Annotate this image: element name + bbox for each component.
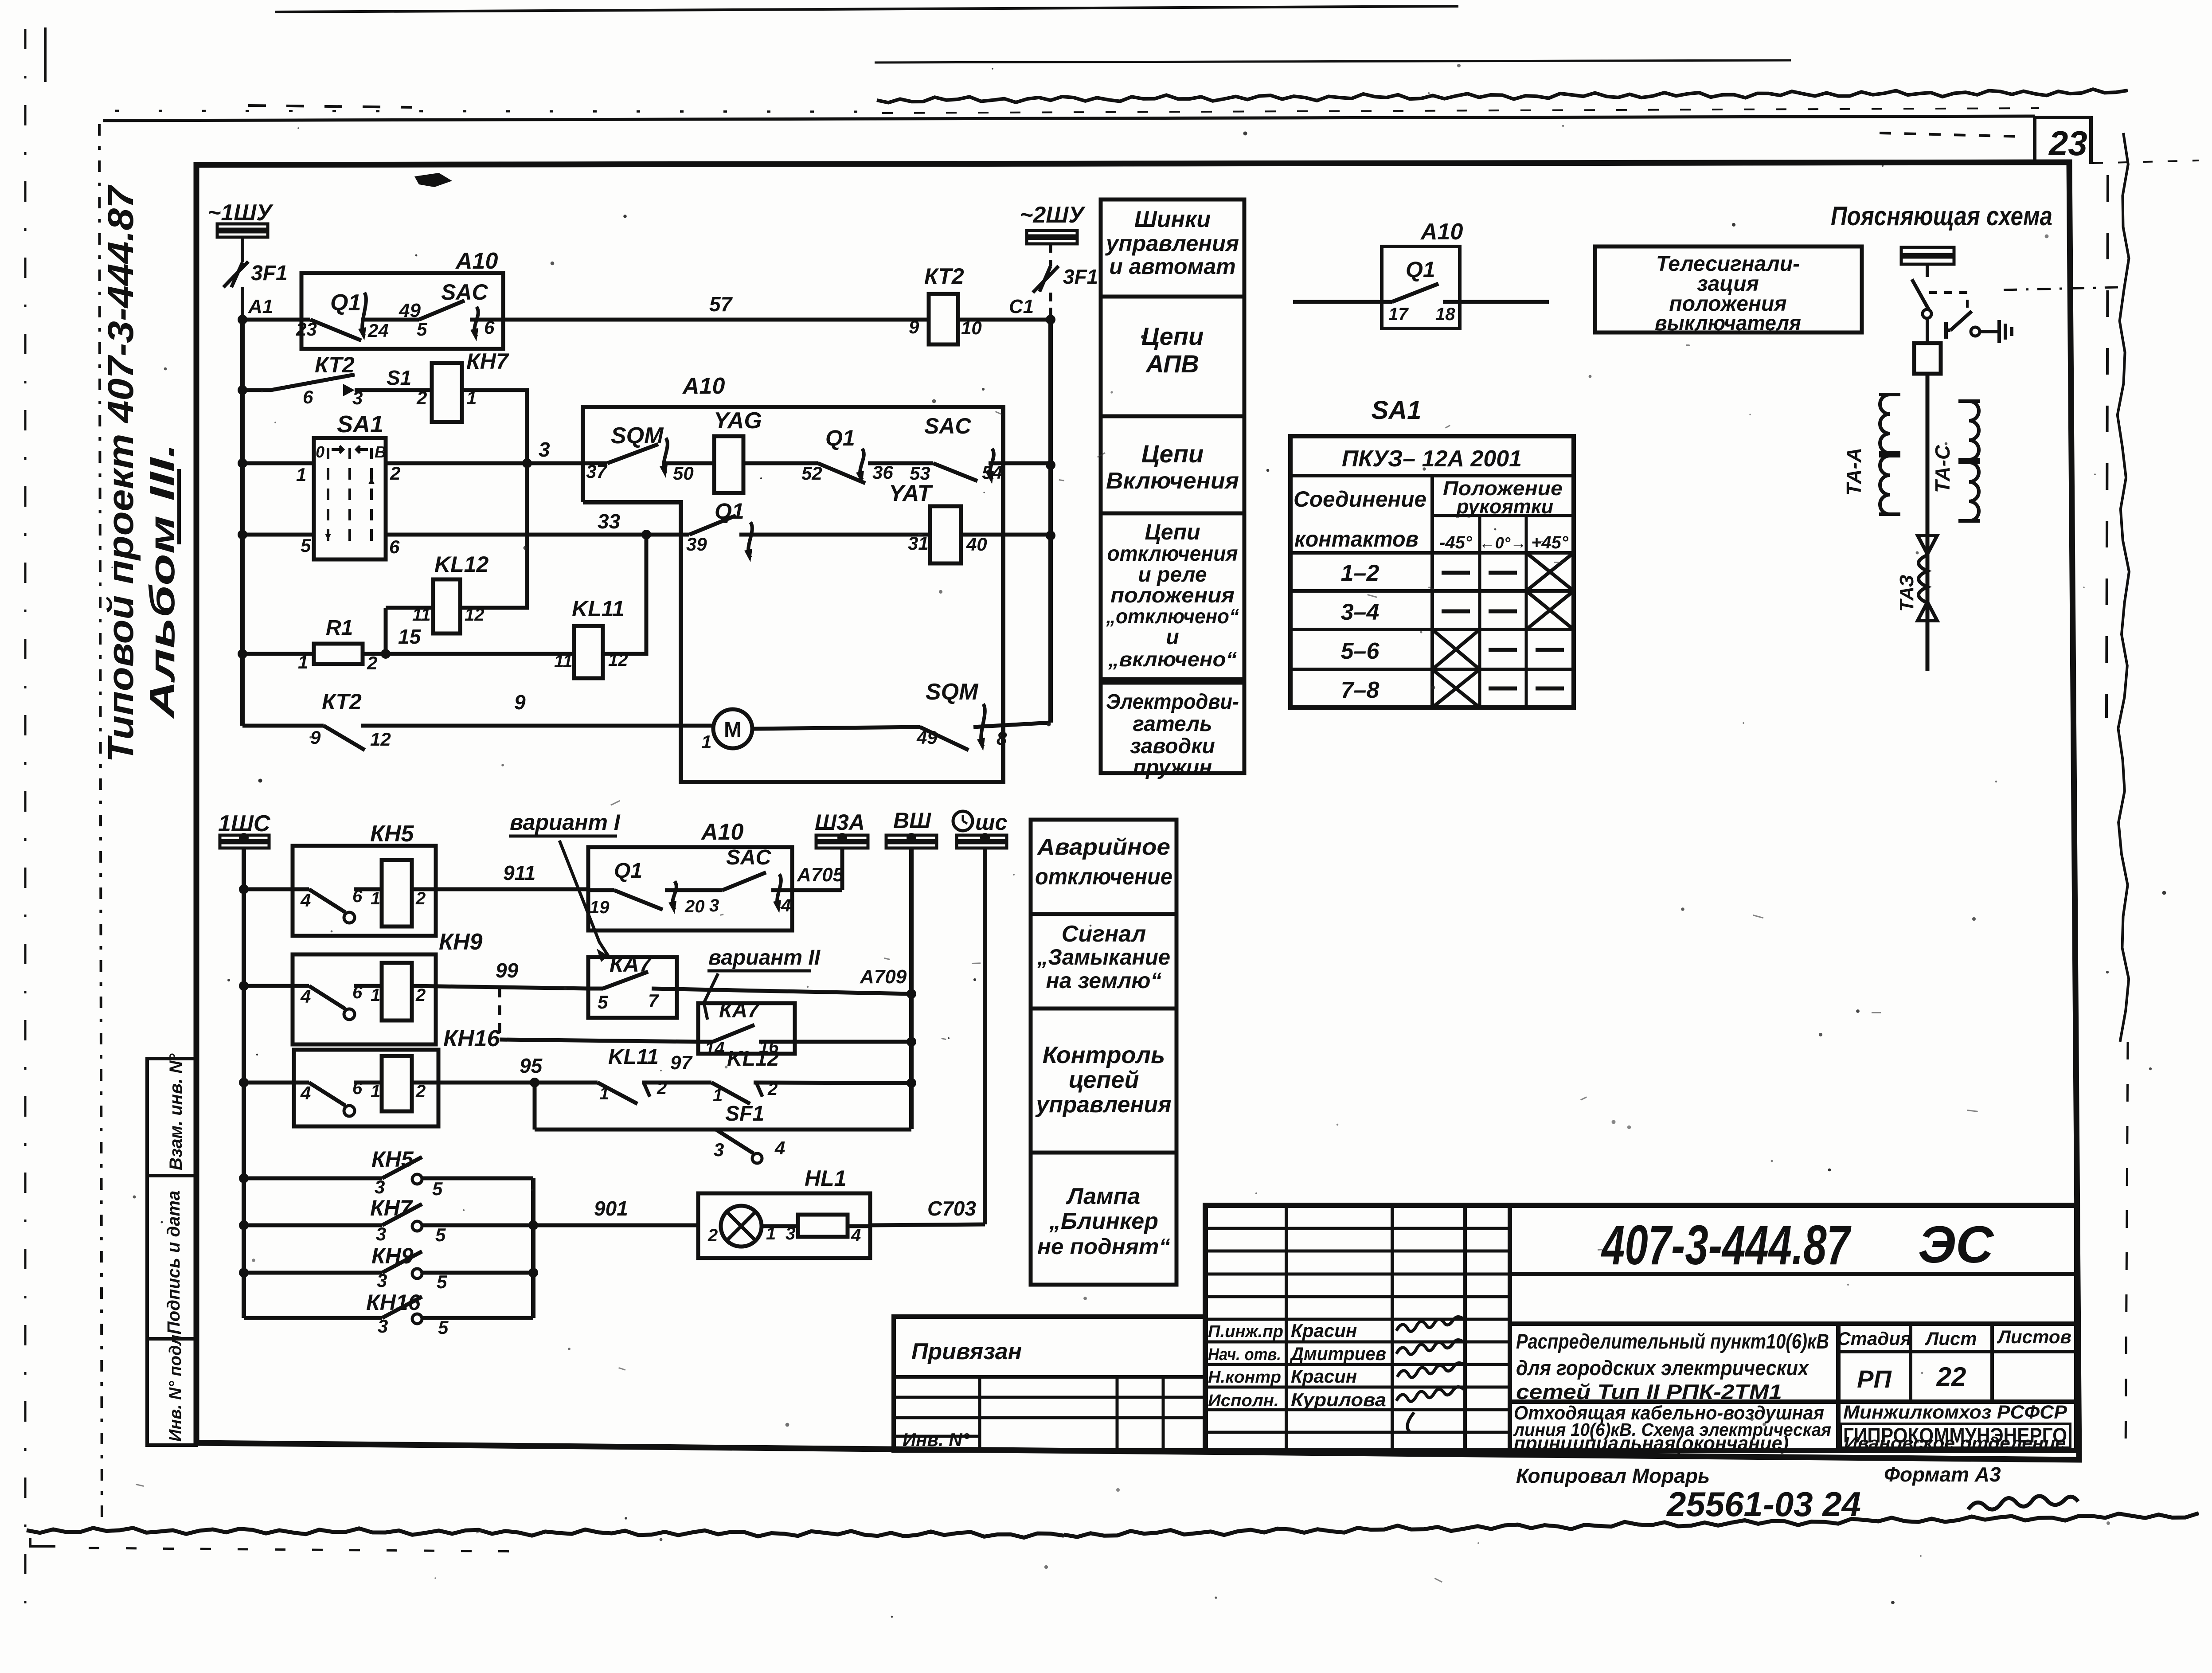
svg-text:Н.контр: Н.контр [1208, 1368, 1281, 1387]
svg-text:„Блинкер: „Блинкер [1049, 1208, 1158, 1234]
busbar of explanatory diagram [1901, 247, 1954, 254]
svg-text:пружин: пружин [1133, 756, 1212, 779]
svg-text:„отключено“: „отключено“ [1106, 605, 1239, 628]
left fold dashed line [99, 124, 102, 1525]
svg-text:ЭС: ЭС [1918, 1216, 1994, 1274]
svg-text:3: 3 [378, 1316, 388, 1337]
svg-text:HL1: HL1 [805, 1166, 846, 1191]
svg-text:Дмитриев: Дмитриев [1290, 1343, 1386, 1364]
svg-text:Аварийное: Аварийное [1036, 834, 1170, 860]
svg-text:11: 11 [554, 652, 573, 671]
svg-text:Лист: Лист [1924, 1328, 1977, 1349]
doc number cell [1510, 1272, 2077, 1276]
svg-text:1: 1 [296, 464, 306, 485]
svg-text:1: 1 [371, 889, 380, 908]
svg-text:3: 3 [376, 1223, 386, 1244]
svg-text:12: 12 [465, 605, 485, 625]
svg-text:4: 4 [781, 896, 791, 915]
svg-text:2: 2 [415, 1082, 426, 1101]
svg-text:Альбом III.: Альбом III. [142, 443, 182, 719]
svg-text:S1: S1 [387, 366, 411, 389]
svg-text:Ш3А: Ш3А [815, 810, 865, 835]
svg-text:5: 5 [432, 1178, 443, 1199]
wire from 2ShU down + 3F1 right [1049, 244, 1052, 266]
svg-text:19: 19 [590, 898, 610, 917]
svg-text:вариант II: вариант II [708, 946, 821, 969]
svg-text:12: 12 [370, 729, 391, 750]
svg-text:Взам. инв. N°: Взам. инв. N° [166, 1053, 186, 1170]
rail 4 wire [242, 533, 314, 537]
interlock dashed link [1929, 293, 1967, 316]
riser KH16 rail to SF1 rail [533, 1083, 537, 1130]
svg-text:←0°→: ←0°→ [1479, 534, 1526, 552]
junction rail3 / KH7-KL12 riser [522, 458, 532, 468]
svg-text:R1: R1 [326, 616, 353, 640]
svg-text:5: 5 [435, 1224, 446, 1245]
telesignalization box [1595, 246, 1862, 332]
Q1 17-18 blade [1392, 284, 1438, 302]
VSh vertical [909, 848, 914, 1129]
svg-text:7–8: 7–8 [1341, 677, 1380, 703]
svg-text:Листов: Листов [1997, 1326, 2071, 1347]
svg-text:+45°: +45° [1531, 533, 1569, 552]
riser to Sh3A bus [840, 848, 844, 890]
motor M [713, 709, 752, 748]
svg-text:25561-03 24: 25561-03 24 [1666, 1485, 1861, 1524]
svg-text:КН5: КН5 [371, 1147, 414, 1172]
svg-text:КТ2: КТ2 [322, 689, 362, 714]
svg-text:-45°: -45° [1439, 533, 1473, 552]
KH7 3-5 contact rail [244, 1223, 382, 1227]
svg-text:95: 95 [520, 1054, 543, 1077]
rail 2 wire [242, 388, 271, 392]
svg-text:4: 4 [300, 890, 311, 911]
svg-text:Сигнал: Сигнал [1062, 921, 1146, 947]
svg-text:1: 1 [371, 1082, 380, 1101]
svg-text:24: 24 [367, 320, 389, 341]
svg-text:А10: А10 [682, 373, 725, 399]
svg-text:4: 4 [851, 1226, 861, 1245]
svg-text:Стадия: Стадия [1837, 1328, 1911, 1349]
legend box: tsepi APV [1101, 297, 1244, 416]
svg-text:20: 20 [684, 897, 705, 916]
svg-text:на землю“: на землю“ [1046, 968, 1162, 993]
svg-text:49: 49 [399, 300, 421, 321]
svg-text:~1ШУ: ~1ШУ [207, 200, 274, 226]
right sheet edge dashed + wavy [2106, 175, 2108, 718]
svg-text:для городских электрических: для городских электрических [1516, 1356, 1809, 1380]
svg-text:1: 1 [713, 1086, 723, 1105]
svg-text:57: 57 [709, 293, 733, 316]
svg-text:Исполн.: Исполн. [1208, 1392, 1279, 1410]
svg-text:отключения: отключения [1107, 542, 1238, 566]
legend box: kontrol tsepey upravleniya [1031, 1008, 1176, 1153]
svg-text:1: 1 [599, 1084, 609, 1103]
svg-text:2: 2 [390, 463, 400, 484]
svg-text:и автомат: и автомат [1109, 254, 1235, 279]
svg-text:Q1: Q1 [1406, 257, 1435, 282]
riser to KL12 [384, 608, 388, 654]
svg-text:Цепи: Цепи [1141, 322, 1204, 350]
svg-text:1–2: 1–2 [1341, 560, 1380, 586]
svg-text:выключателя: выключателя [1655, 312, 1801, 335]
svg-text:50: 50 [673, 463, 694, 484]
svg-text:Q1: Q1 [330, 290, 361, 316]
svg-text:и реле: и реле [1138, 563, 1207, 586]
rail 3 wire left [242, 461, 314, 465]
svg-text:YAG: YAG [714, 408, 762, 434]
svg-text:ТА-А: ТА-А [1842, 448, 1865, 496]
svg-text:КН7: КН7 [370, 1196, 413, 1220]
svg-text:принципиальная(окончание): принципиальная(окончание) [1514, 1433, 1789, 1454]
svg-text:4: 4 [300, 1083, 311, 1103]
svg-text:Включения: Включения [1106, 468, 1239, 494]
svg-text:49: 49 [916, 727, 938, 748]
svg-text:~2ШУ: ~2ШУ [1020, 202, 1086, 228]
svg-text:А709: А709 [860, 966, 907, 988]
svg-text:52: 52 [801, 463, 822, 484]
svg-text:заводки: заводки [1130, 735, 1215, 758]
rail 3 wire right [386, 461, 583, 465]
title block rows left part [1205, 1227, 1510, 1230]
svg-text:97: 97 [670, 1052, 693, 1074]
svg-text:В: В [375, 443, 386, 461]
svg-text:901: 901 [594, 1197, 628, 1220]
bottom sheet wavy edge [27, 1528, 1064, 1538]
svg-text:управления: управления [1105, 231, 1239, 256]
svg-text:А10: А10 [455, 248, 498, 274]
svg-text:6: 6 [389, 536, 400, 557]
svg-text:Q1: Q1 [614, 859, 642, 883]
left main vertical rail [240, 320, 245, 726]
top small ink blob [414, 173, 452, 187]
CT TA-A coils [1880, 395, 1890, 453]
svg-text:Красин: Красин [1291, 1366, 1357, 1387]
svg-text:Красин: Красин [1291, 1320, 1357, 1341]
legend box: signal zamykanie na zemlyu [1031, 914, 1176, 1008]
right collector bus of pushbuttons [531, 1178, 535, 1318]
svg-text:Минжилкомхоз РСФСР: Минжилкомхоз РСФСР [1843, 1402, 2067, 1423]
svg-text:1: 1 [701, 731, 711, 752]
sheet top second line [875, 60, 1791, 63]
sheet top edge line [275, 6, 1458, 12]
disconnector [1912, 279, 1929, 310]
svg-text:Шинки: Шинки [1134, 207, 1211, 232]
legend box: avariynoe otklyuchenie [1031, 820, 1176, 914]
svg-text:5: 5 [437, 1271, 447, 1292]
svg-text:С1: С1 [1009, 296, 1034, 317]
top dashed scan residue [882, 108, 2039, 113]
svg-text:А10: А10 [700, 819, 743, 845]
svg-text:3: 3 [375, 1177, 385, 1197]
svg-text:0: 0 [316, 443, 324, 461]
svg-text:КН16: КН16 [443, 1026, 500, 1051]
bottom-right signature scribble [1968, 1496, 2078, 1509]
svg-text:1: 1 [371, 985, 380, 1005]
svg-text:управления: управления [1035, 1092, 1172, 1118]
svg-text:M: M [724, 718, 742, 742]
svg-text:9: 9 [514, 691, 526, 714]
scan speckles [1428, 92, 1430, 94]
svg-text:цепей: цепей [1069, 1067, 1139, 1093]
svg-text:РП: РП [1857, 1365, 1892, 1393]
svg-text:2: 2 [415, 985, 426, 1005]
svg-text:9: 9 [909, 317, 919, 337]
svg-text:33: 33 [598, 510, 621, 533]
svg-text:Q1: Q1 [825, 426, 855, 450]
left stamp box inv n podl [147, 1339, 196, 1445]
svg-text:1ШС: 1ШС [218, 811, 271, 836]
legend box: elektrodvigatel zavodki pruzhin [1101, 683, 1244, 773]
svg-text:ТА-С: ТА-С [1931, 445, 1954, 493]
bottom-left small L mark [30, 1538, 55, 1546]
frame thin top rule [103, 116, 2035, 121]
svg-text:КТ2: КТ2 [315, 352, 355, 377]
zero-seq CT TA3 [1918, 536, 1937, 554]
svg-text:Цепи: Цепи [1145, 520, 1200, 544]
rail 6 wire [242, 724, 324, 728]
svg-text:KL12: KL12 [727, 1047, 779, 1071]
frame main border [196, 162, 2079, 1460]
svg-text:4: 4 [774, 1137, 785, 1158]
svg-text:39: 39 [686, 534, 707, 555]
svg-text:КН9: КН9 [371, 1243, 414, 1268]
svg-text:2: 2 [416, 387, 427, 408]
svg-text:23: 23 [296, 319, 317, 340]
svg-text:„включено“: „включено“ [1108, 648, 1237, 671]
left stamp box vzam inv [147, 1059, 196, 1176]
SA1 table [1290, 436, 1574, 708]
rail 3 inside A10: SQM 37-50 contact [583, 461, 607, 465]
svg-text:14: 14 [705, 1039, 725, 1058]
dashed drop to variant II [498, 988, 501, 1040]
svg-text:П.инж.пр: П.инж.пр [1208, 1322, 1283, 1341]
right vertical connector [1048, 320, 1053, 723]
stadiya list listov [1838, 1350, 2077, 1353]
wire KH7 to KL12 [460, 390, 527, 608]
svg-text:SA1: SA1 [1372, 396, 1422, 425]
svg-text:Инв. N°: Инв. N° [903, 1429, 970, 1450]
rail 5 wire [242, 652, 314, 656]
svg-text:5–6: 5–6 [1341, 638, 1380, 664]
svg-text:гатель: гатель [1133, 712, 1212, 736]
svg-text:7: 7 [648, 990, 659, 1011]
A10 big box (L-shape) [583, 407, 1003, 782]
title block outer [1205, 1205, 2077, 1450]
privyazan table [894, 1317, 1205, 1450]
KH16 3-5 contact rail [244, 1316, 382, 1320]
svg-text:40: 40 [966, 534, 987, 555]
svg-text:KL11: KL11 [608, 1045, 659, 1069]
svg-text:Соединение: Соединение [1294, 487, 1426, 512]
svg-text:31: 31 [908, 533, 929, 554]
svg-text:11: 11 [412, 605, 431, 625]
svg-text:Ивановское отделение: Ивановское отделение [1844, 1434, 2066, 1453]
svg-text:„Замыкание: „Замыкание [1037, 945, 1170, 969]
legend box: tsepi vklyucheniya [1101, 416, 1244, 513]
svg-text:Нач. отв.: Нач. отв. [1208, 1345, 1281, 1364]
top-left short vertical mark [44, 27, 47, 82]
svg-text:положения: положения [1110, 584, 1235, 607]
svg-text:5: 5 [438, 1317, 449, 1338]
svg-text:не поднят“: не поднят“ [1037, 1234, 1170, 1259]
svg-text:Формат А3: Формат А3 [1884, 1463, 2001, 1486]
svg-text:ПКУЗ– 12А 2001: ПКУЗ– 12А 2001 [1342, 446, 1522, 472]
svg-text:SAC: SAC [924, 414, 971, 438]
svg-text:5: 5 [417, 319, 427, 340]
feeder line [1926, 374, 1930, 671]
svg-text:Типовой проект 407-3-444.87: Типовой проект 407-3-444.87 [101, 184, 141, 762]
svg-text:КН9: КН9 [439, 929, 483, 955]
svg-text:5: 5 [598, 992, 608, 1012]
svg-text:SF1: SF1 [725, 1102, 764, 1126]
svg-text:3: 3 [709, 896, 719, 915]
svg-text:Курилова: Курилова [1291, 1389, 1386, 1410]
svg-text:3: 3 [377, 1270, 387, 1291]
svg-text:шс: шс [975, 810, 1007, 835]
svg-text:АПВ: АПВ [1145, 350, 1199, 378]
legend box: tsepi otklyucheniya [1101, 513, 1244, 679]
svg-text:КТ2: КТ2 [924, 264, 964, 289]
svg-text:17: 17 [1388, 305, 1409, 324]
svg-text:2: 2 [707, 1226, 718, 1245]
lower left vertical rail [242, 848, 246, 1318]
svg-text:3: 3 [539, 438, 550, 461]
svg-text:5: 5 [301, 535, 311, 556]
lamp rail 901 [533, 1223, 698, 1227]
svg-text:22: 22 [1936, 1362, 1966, 1392]
svg-text:15: 15 [398, 625, 422, 648]
rail 1 wire [242, 318, 310, 322]
A10 box top-left [301, 273, 503, 349]
svg-text:КН7: КН7 [466, 349, 509, 374]
svg-text:Цепи: Цепи [1141, 440, 1204, 468]
svg-text:1: 1 [298, 652, 308, 672]
svg-text:SQM: SQM [926, 679, 979, 705]
left scan dash-dot edge [24, 29, 27, 1614]
title block verticals left part [1285, 1205, 1288, 1450]
svg-text:А10: А10 [1420, 219, 1463, 245]
svg-text:KL12: KL12 [434, 552, 489, 577]
bus shs with clock [953, 811, 973, 831]
svg-text:контактов: контактов [1294, 527, 1419, 551]
switch 3F1 left [231, 262, 242, 287]
svg-text:С703: С703 [927, 1197, 976, 1220]
svg-text:23: 23 [2048, 124, 2087, 163]
svg-text:отключение: отключение [1035, 864, 1172, 890]
svg-text:4: 4 [300, 986, 311, 1007]
svg-text:2: 2 [415, 889, 426, 908]
svg-text:Контроль: Контроль [1043, 1042, 1165, 1068]
svg-text:8: 8 [997, 728, 1007, 749]
legend box: lampa blinker ne podnyat [1031, 1153, 1176, 1285]
wire from 1ShU down [241, 237, 244, 262]
circuit breaker box [1914, 343, 1941, 374]
svg-text:407-3-444.87: 407-3-444.87 [1601, 1214, 1852, 1276]
svg-text:ВШ: ВШ [893, 808, 931, 833]
svg-text:Инв. N° подл.: Инв. N° подл. [166, 1330, 185, 1442]
left stamp box podpis i data [147, 1176, 196, 1339]
svg-text:вариант I: вариант I [510, 810, 621, 835]
svg-text:3F1: 3F1 [1063, 265, 1098, 288]
svg-text:3F1: 3F1 [251, 262, 288, 285]
svg-text:и: и [1166, 625, 1179, 649]
signatures [1396, 1317, 1464, 1331]
svg-text:3–4: 3–4 [1341, 599, 1380, 625]
svg-text:А1: А1 [248, 296, 273, 317]
top wavy scan line [877, 89, 2128, 102]
svg-text:KL11: KL11 [572, 596, 625, 621]
svg-text:А705: А705 [797, 864, 844, 886]
svg-text:Копировал Морарь: Копировал Морарь [1516, 1464, 1710, 1487]
sheet number box 23 [2033, 116, 2036, 163]
svg-text:Привязан: Привязан [911, 1339, 1022, 1364]
wire into Q1 17-18 [1293, 300, 1392, 304]
svg-text:Электродви-: Электродви- [1106, 690, 1239, 714]
legend column: shinki upravleniya i avtomat [1101, 199, 1244, 297]
svg-text:18: 18 [1435, 305, 1455, 324]
KH9 3-5 contact rail [244, 1271, 382, 1275]
svg-text:911: 911 [503, 861, 535, 884]
svg-text:Поясняющая схема: Поясняющая схема [1831, 201, 2052, 231]
wire KL11 to rail4 node [603, 535, 646, 654]
CT TA-C coils [1969, 401, 1979, 460]
svg-text:SAC: SAC [726, 846, 772, 869]
dash-dot interlock to frame [2004, 287, 2119, 290]
shs vertical [983, 848, 987, 1224]
svg-text:3: 3 [714, 1139, 724, 1160]
svg-text:Лампа: Лампа [1066, 1184, 1140, 1209]
svg-text:99: 99 [496, 959, 519, 982]
svg-text:Распределительный пункт10(6)кВ: Распределительный пункт10(6)кВ [1516, 1329, 1829, 1353]
svg-text:6: 6 [303, 387, 313, 407]
KH5 3-5 contact rail [244, 1177, 382, 1180]
lamp series resistor [798, 1215, 848, 1237]
svg-text:ТАЗ: ТАЗ [1896, 575, 1918, 612]
svg-text:КН5: КН5 [370, 821, 414, 847]
svg-text:37: 37 [586, 461, 607, 482]
svg-text:YAT: YAT [889, 481, 934, 506]
svg-text:SA1: SA1 [337, 411, 383, 438]
lamp symbol [721, 1206, 762, 1247]
earthing switch [1950, 311, 1972, 330]
svg-text:Подпись и дата: Подпись и дата [164, 1191, 184, 1334]
